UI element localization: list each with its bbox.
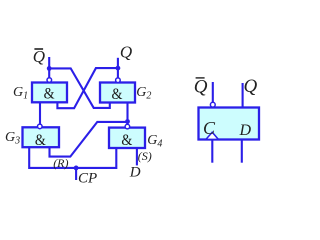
svg-text:&: & (112, 86, 123, 103)
svg-text:&: & (35, 132, 46, 149)
svg-text:Q: Q (194, 77, 208, 98)
wire block Q stub (242, 83, 244, 108)
svg-text:&: & (44, 86, 55, 103)
wire Q-bar output vertical (48, 57, 50, 78)
svg-text:Q: Q (244, 76, 258, 97)
wire G3 output to G1 input (39, 102, 41, 124)
node Q-bar junction dot (47, 66, 52, 71)
svg-text:G4: G4 (147, 133, 162, 150)
wire CP rail (29, 147, 116, 168)
svg-text:&: & (121, 132, 132, 149)
wire cross-couple from Q to G1 input (57, 68, 118, 108)
wire block Q-bar stub (212, 82, 214, 102)
svg-text:G3: G3 (5, 130, 20, 147)
wire Q output vertical (117, 58, 119, 78)
svg-text:G1: G1 (13, 85, 28, 102)
gate G1 output bubble (47, 78, 52, 83)
svg-text:(S): (S) (138, 149, 152, 163)
svg-text:D: D (129, 165, 141, 181)
wire block C input stub (211, 140, 213, 163)
gate G2 output bubble (116, 78, 121, 83)
block latch symbol body (199, 108, 260, 140)
block dynamic clock triangle (206, 132, 219, 139)
svg-text:(R): (R) (53, 156, 68, 170)
wire G4 output to G2 input (126, 103, 128, 125)
svg-text:Q: Q (120, 43, 132, 62)
gate G4 output bubble (125, 124, 130, 129)
wire CP input stub (75, 168, 77, 180)
gate G3 output bubble (38, 124, 43, 129)
wire D input stub (136, 148, 138, 165)
svg-text:D: D (239, 122, 252, 139)
node S junction dot (125, 119, 130, 124)
node CP junction dot (74, 166, 79, 171)
wire cross-couple from Q-bar to G2 input (49, 68, 110, 108)
gate G1 body (32, 83, 67, 103)
wire G3 input diagonal from S node (50, 122, 128, 157)
node Q junction dot (116, 66, 121, 71)
svg-text:C: C (203, 118, 216, 138)
block Q-bar inversion bubble (210, 102, 215, 107)
wire block D input stub (241, 140, 243, 163)
gate G3 body (23, 127, 60, 147)
gate G4 body (109, 128, 145, 148)
gate G2 body (100, 83, 135, 103)
svg-text:G2: G2 (136, 85, 151, 102)
svg-text:CP: CP (78, 171, 97, 187)
